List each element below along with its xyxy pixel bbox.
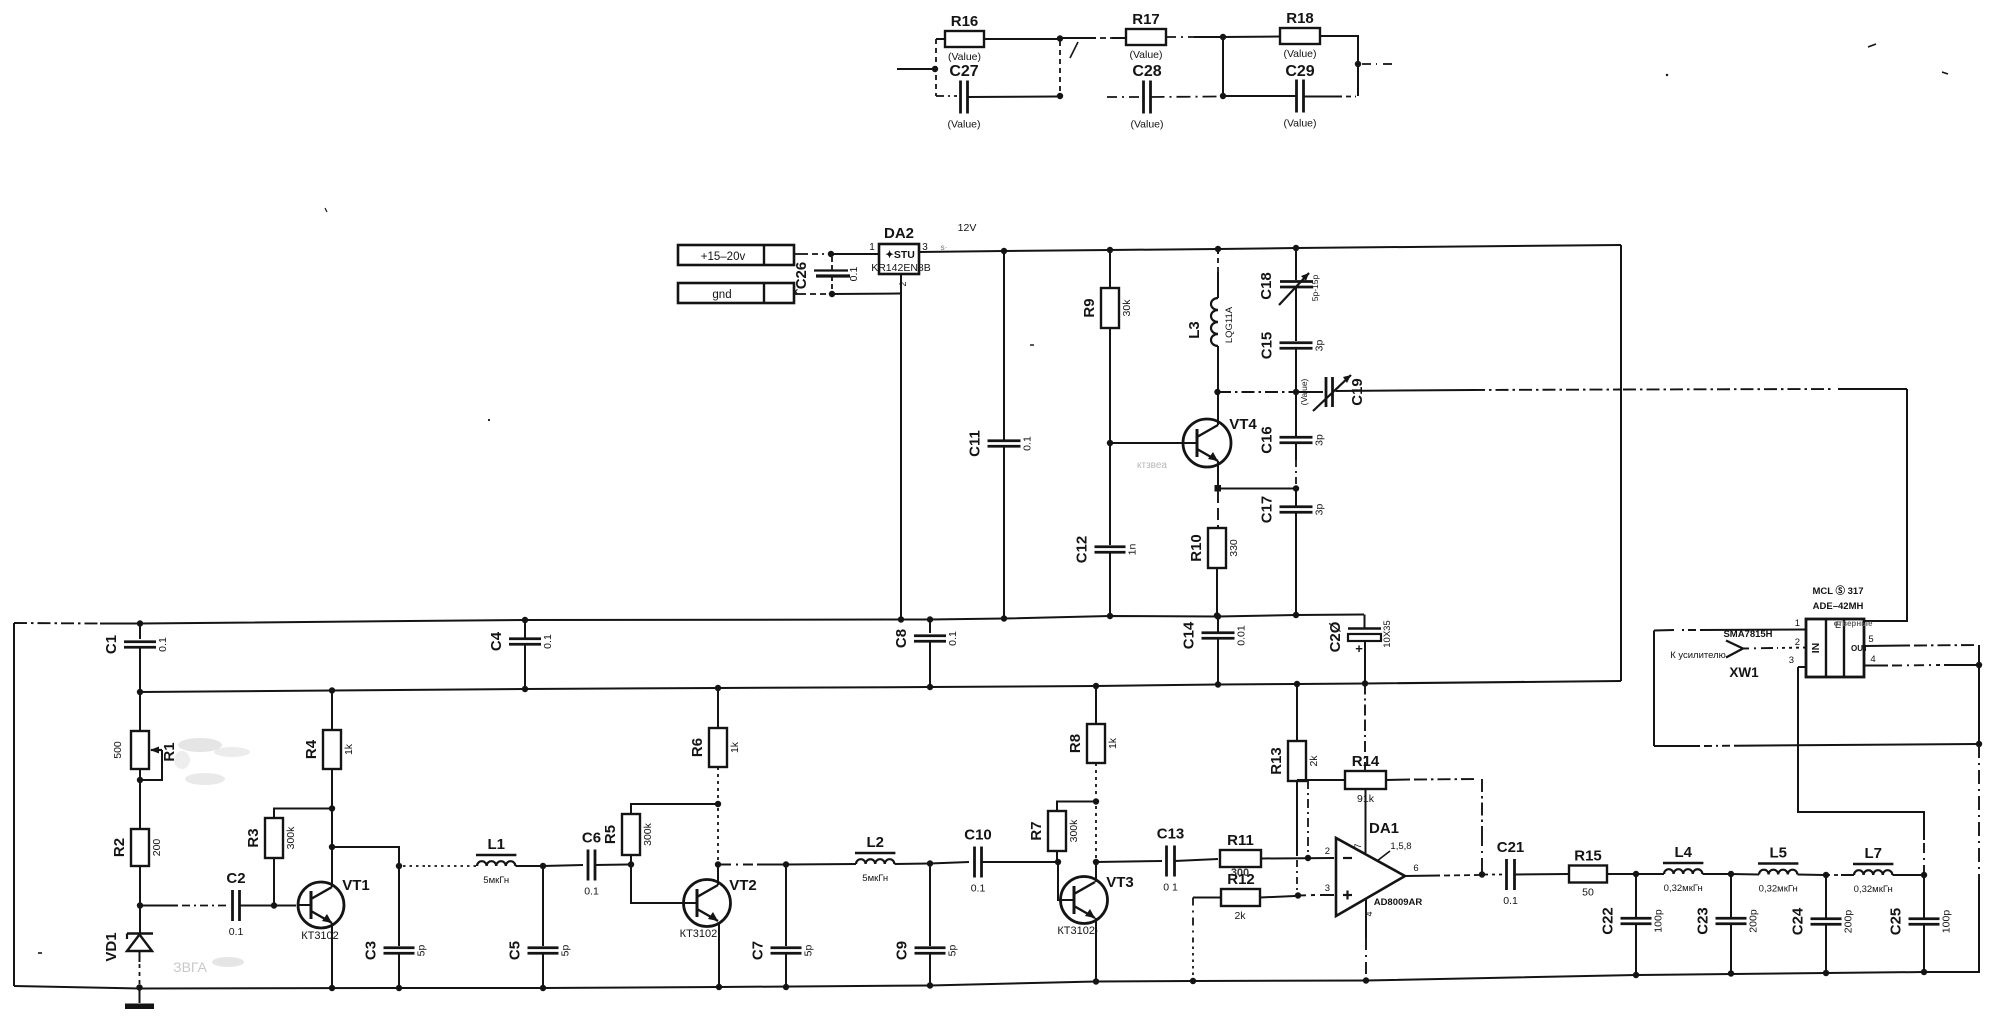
capacitor C12 [1109,443,1111,545]
junction dot DA1 pin4 ground [1363,977,1369,983]
svg-text:50: 50 [1582,887,1594,899]
capacitor C17 [1295,489,1297,507]
junction dot L7 output node [1921,872,1927,878]
svg-text:L3: L3 [1186,321,1203,339]
wire C7 node to L2 [786,863,856,866]
capacitor C24 [1825,875,1827,918]
transistor VT4 KT368 [1183,419,1231,467]
node C junction dot (top) [1220,34,1226,40]
svg-text:R5: R5 [602,825,619,844]
junction dot 12V rail / C18 [1293,245,1299,251]
wire R13 bottom to pin3 node [1296,781,1298,856]
svg-text:1: 1 [1795,618,1800,629]
svg-text:DA1: DA1 [1369,820,1399,837]
junction dot R3 top / R4 line [329,805,335,811]
wire L2 to C9 node [895,863,931,866]
svg-text:DA2: DA2 [884,225,914,242]
svg-text:0.1: 0.1 [584,886,599,898]
junction dot C19 node [1293,389,1299,395]
wire +15-20v to C26 node [794,253,808,255]
wire output node to C21 [1485,874,1502,876]
resistor R16 [945,31,984,47]
svg-text:100p: 100p [1941,910,1953,934]
capacitor C18 trimmer [1295,248,1297,280]
junction dot 12V rail / R9 [1107,247,1113,253]
capacitor C25 [1923,875,1925,918]
svg-text:R18: R18 [1286,10,1314,27]
svg-text:(Value): (Value) [1299,378,1309,405]
svg-text:0.1: 0.1 [947,631,959,646]
svg-text:5мкГн: 5мкГн [483,875,509,886]
svg-text:200p: 200p [1748,909,1760,933]
svg-text:R10: R10 [1188,534,1205,562]
svg-text:L1: L1 [487,836,505,853]
svg-text:C12: C12 [1074,536,1091,564]
svg-text:R15: R15 [1574,848,1602,865]
svg-text:0.1: 0.1 [848,267,860,282]
svg-text:R17: R17 [1132,11,1160,28]
svg-text:C3: C3 [363,941,380,960]
speck left mid [38,952,42,954]
wire ground rail bottom [14,972,1980,989]
junction dot R12 ground [1190,978,1196,984]
capacitor C15 [1280,341,1313,344]
svg-text:1n: 1n [1127,544,1139,556]
wire R11 to DA1 pin 2 [1261,857,1334,860]
junction dot C3 column / signal out [396,863,402,869]
inductor L3 LQG11A [1217,249,1219,254]
wire VT4 base [1110,442,1186,444]
svg-text:C23: C23 [1695,907,1712,935]
svg-text:R11: R11 [1227,832,1254,849]
capacitor C19 trimmer (Value) [1296,391,1323,393]
wire R12 right to DA1 pin 3 [1260,896,1295,898]
junction dot R9 / VT4 base [1107,440,1113,446]
inductor L2 5uH [856,859,894,864]
wire VT1 emitter [331,923,333,988]
svg-text:C2Ø: C2Ø [1327,621,1344,652]
svg-text:(Value): (Value) [1283,48,1316,60]
node B junction dot (bottom) [1057,93,1063,99]
wire R16 right to node B [984,38,1058,40]
junction dot R7 top / R8 line [1093,798,1099,804]
svg-text:2: 2 [1795,637,1800,648]
wire VT2 emitter [718,922,720,987]
resistor R9 [1109,250,1111,288]
svg-text:VT1: VT1 [342,877,370,894]
resistor R17 [1126,29,1166,45]
svg-text:C16: C16 [1259,426,1276,454]
svg-text:(Value): (Value) [1130,119,1163,131]
wire node C to R18 [1223,36,1280,39]
wire input lead to top filter [897,68,932,70]
svg-text:0.1: 0.1 [971,883,986,895]
wire collector node to C19 node [1218,391,1294,393]
node A junction dot [932,66,938,72]
junction dot R2 / C2 / VD1 [137,902,143,908]
wire C29 left to node C [1223,95,1297,97]
svg-text:4: 4 [1364,911,1374,916]
wire left border vertical [13,623,15,986]
svg-text:(Value): (Value) [947,119,980,131]
svg-text:КТ3102.: КТ3102. [680,928,721,940]
capacitor C8 [929,620,931,634]
capacitor C21 [1505,859,1508,890]
svg-text:C1: C1 [103,635,120,654]
resistor R10 [1217,491,1219,528]
junction dot R3 / base wire [271,902,277,908]
wire ground rail top [14,622,100,625]
svg-text:0.1: 0.1 [1022,436,1034,451]
junction dot 12V rail / C20 [1362,680,1368,686]
junction dot ground rail / C8 [927,616,933,622]
node D output dot [1355,61,1361,67]
svg-text:КТ3102·: КТ3102· [1057,925,1098,937]
wire right vertical rail [1978,645,1980,744]
capacitor C27 [959,81,962,114]
junction dot C10 / R7 / VT3 base column [1055,859,1061,865]
svg-text:1,5,8: 1,5,8 [1390,841,1411,852]
junction dot 12V rail / C11 [1001,248,1007,254]
wire VT2 base [631,865,684,904]
svg-text:R16: R16 [951,13,979,30]
node B junction dot (top) [1057,35,1063,41]
svg-text:C17: C17 [1259,496,1276,524]
svg-text:0,32мкГн: 0,32мкГн [1664,883,1703,894]
inductor L5 0.32uH [1731,873,1759,876]
junction dot 12V rail / L3 [1215,246,1221,252]
svg-text:AD8009AR: AD8009AR [1374,897,1423,908]
svg-text:C18: C18 [1258,272,1275,300]
resistor R13 [1296,684,1298,741]
svg-text:отверные: отверные [1834,619,1873,628]
wire C19 right to mixer secondary [1336,390,1473,391]
junction dot VT3 collector node [1093,859,1099,865]
inductor L4 0.32uH [1636,873,1664,875]
transistor VT3 KT3102 [1061,877,1108,924]
svg-text:3p: 3p [1314,504,1326,516]
junction dot 12V rail / C4 [522,686,528,692]
resistor R1 trimmer 500 [139,692,141,731]
wire collector node to C7/L2 [721,864,753,866]
junction dot C24 node [1823,872,1829,878]
svg-text:5p: 5p [416,945,428,957]
junction dot VT1 collector node [329,844,335,850]
svg-text:ЗВГА: ЗВГА [173,959,207,975]
junction dot R5 top / R6 line [715,801,721,807]
svg-text:C9: C9 [894,941,911,960]
svg-text:5p: 5p [803,945,815,957]
svg-text:0,32мкГн: 0,32мкГн [1759,884,1798,895]
svg-text:R9: R9 [1081,298,1098,317]
op-amp DA1 AD8009AR [1336,838,1405,916]
junction dot 12V rail / C8 [927,684,933,690]
wire VT2 collector [717,865,719,886]
wire feedback drop to pin2 [1307,780,1309,856]
junction dot VT4 collector node [1214,389,1220,395]
svg-text:3p: 3p [1314,340,1326,352]
junction dot output node [1479,871,1485,877]
svg-text:500: 500 [112,741,124,759]
svg-text:SMA7815H: SMA7815H [1723,629,1772,640]
zener diode VD1 [139,906,141,934]
svg-text:5p: 5p [560,945,572,957]
svg-text:VT3: VT3 [1106,874,1134,891]
svg-text:L2: L2 [866,834,884,851]
junction dot 12V rail / R8 [1093,683,1099,689]
wire C28 leads [1107,96,1144,98]
svg-text:C24: C24 [1790,907,1807,935]
svg-text:2: 2 [898,281,908,286]
wire filter output up to mixer pin 3 [1923,840,1925,875]
wire ground rail corner into C20 [1364,615,1366,629]
svg-text:C8: C8 [893,629,910,648]
wire DA1 pin 7 supply column [1364,684,1366,721]
wire node C vertical [1222,37,1224,96]
resistor R14 [1345,771,1386,789]
svg-text:C19: C19 [1349,378,1366,406]
svg-text:XW1: XW1 [1729,665,1759,680]
wire VT3 base [1058,862,1061,900]
svg-text:L7: L7 [1864,845,1882,862]
svg-text:✦STU: ✦STU [885,249,915,261]
resistor R8 [1095,686,1097,724]
wire R14 right to output node [1386,779,1410,782]
svg-text:C21: C21 [1497,839,1525,856]
svg-text:L5: L5 [1769,845,1787,862]
wire L1 to C5 node [516,865,544,867]
wire signal to L1 [403,865,425,867]
capacitor C22 [1635,874,1637,917]
svg-text:1k: 1k [343,743,355,755]
capacitor C7 [785,865,787,947]
svg-text:4: 4 [1870,654,1875,665]
capacitor C1 [139,624,141,640]
svg-text:1: 1 [869,242,875,253]
svg-text:(Value): (Value) [1129,49,1162,61]
wire R1 to R2 [139,769,141,829]
svg-text:ADE–42MH: ADE–42MH [1813,601,1864,612]
junction dot 12V rail / R6 [715,685,721,691]
capacitor C11 [1003,251,1005,440]
wire VT3 collector [1095,862,1097,882]
svg-text:300k: 300k [642,822,654,846]
svg-text:C4: C4 [488,631,505,651]
wire collector node to C3 column [332,847,399,866]
wire VT4 collector to node [1217,392,1219,425]
svg-text:ктзвеа: ктзвеа [1137,460,1167,471]
svg-text:IN: IN [1810,643,1822,654]
junction dot 12V rail / R4 [329,687,335,693]
capacitor C14 [1217,617,1219,633]
junction dot C9 node [927,860,933,866]
svg-text:R2: R2 [111,838,128,857]
capacitor C26 [814,269,848,271]
capacitor C28 [1142,81,1145,114]
svg-text:MCL Ⓢ 317: MCL Ⓢ 317 [1812,585,1863,597]
capacitor C10 [930,862,969,864]
wire node B vertical [1059,41,1061,94]
transistor VT2 KT3102 [684,880,731,927]
wire R8 bottom to collector node [1095,763,1097,797]
svg-text:C22: C22 [1600,907,1617,935]
resistor R7 [1056,851,1058,862]
wire +12V distribution rail [140,681,1621,692]
svg-text:C28: C28 [1132,63,1161,80]
svg-text:VD1: VD1 [103,932,120,961]
wire R6 bottom to collector node [717,767,719,800]
svg-text:R4: R4 [303,739,320,759]
capacitor C9 [929,864,931,947]
svg-text:C15: C15 [1259,332,1276,360]
svg-text:0.1: 0.1 [157,637,169,652]
svg-text:12V: 12V [958,222,977,234]
wire R17 right to node C [1166,36,1194,38]
wire VT4 emitter to node [1217,461,1219,488]
resistor R3 [273,858,275,906]
svg-text:0.01: 0.01 [1236,625,1248,646]
capacitor C6 [543,865,583,866]
svg-text:LQG11A: LQG11A [1224,306,1235,343]
wire 12V rail right corner down [1620,245,1622,681]
svg-text:0.1: 0.1 [542,634,554,649]
svg-text:300k: 300k [285,826,297,850]
svg-text:R13: R13 [1268,747,1285,775]
junction dot R13 / pin3 wire [1295,892,1301,898]
svg-text:R12: R12 [1227,871,1255,888]
wire R18 right / output node D [1320,36,1358,96]
connector gnd [678,283,794,303]
wire C27 right to node B [968,96,1058,99]
stray pencil mark [1070,42,1078,58]
wire emitter node row [1218,488,1294,490]
capacitor C13 [1165,846,1168,877]
wire R13/R14 interconnect [1297,779,1345,781]
wire VT1 collector [331,847,333,887]
svg-text:300k: 300k [1068,819,1080,843]
wire R15 to C22 node [1607,873,1634,875]
svg-text:5p: 5p [947,945,959,957]
svg-text:330: 330 [1228,539,1240,557]
junction dot 12V rail / R13 [1294,681,1300,687]
svg-text:КТ3102: КТ3102 [301,930,339,942]
inductor L1 5uH [477,861,515,866]
node C junction dot (bottom) [1220,93,1226,99]
svg-text:1k: 1k [729,741,741,753]
svg-text:К усилителю: К усилителю [1670,650,1726,661]
svg-text:100p: 100p [1653,909,1665,933]
svg-text:3: 3 [1789,655,1794,666]
svg-text:5: 5 [1868,634,1873,645]
svg-text:0.1: 0.1 [229,926,244,938]
svg-text:L4: L4 [1674,844,1692,861]
node junction dot at C26 top [828,251,834,257]
junction dot C5 node [540,863,546,869]
connector +15-20v [678,245,794,265]
svg-text:2k: 2k [1308,755,1320,767]
svg-text:R8: R8 [1067,734,1084,753]
wire collector node to C13 [1096,861,1162,862]
svg-text:(Value): (Value) [1283,118,1316,130]
capacitor C20 electrolytic 10x35 [1348,627,1381,629]
svg-text:10X35: 10X35 [1382,620,1393,647]
resistor R6 [717,688,719,728]
svg-text:C29: C29 [1285,63,1314,80]
speck top right [1868,44,1876,47]
svg-text:C14: C14 [1181,621,1198,649]
svg-text:0 1: 0 1 [1163,882,1178,894]
svg-text:0.1: 0.1 [1503,895,1518,907]
inductor L7 0.32uH [1826,874,1838,876]
svg-text:ѕ·: ѕ· [941,243,948,252]
svg-text:30k: 30k [1121,299,1133,317]
resistor R4 [331,691,333,731]
svg-text:5мкГн: 5мкГн [862,873,888,884]
stain blob right of R1 [174,738,250,785]
wire VT3 emitter [1095,918,1097,982]
junction dot C23 node [1728,871,1734,877]
svg-text:+15–20v: +15–20v [701,251,746,263]
wire gnd connector to DA2 pin 2 [794,293,806,295]
wire node B to R17 [1063,37,1096,39]
ground symbol [139,988,141,1004]
wire node A vertical (R16 left / C27 left) [935,39,937,96]
wire C26 node to DA2 pin 1 [831,253,879,255]
junction dot C6 / R5 / VT2 base column [628,861,634,867]
svg-text:C7: C7 [750,941,767,960]
junction dot return loop / right rail [1976,741,1982,747]
resistor R5 [630,855,632,865]
junction dot ground rail / DA2 pin2 [898,616,904,622]
svg-text:gnd: gnd [712,289,731,301]
wire output stub right [1362,63,1377,65]
svg-text:VT2: VT2 [729,877,757,894]
svg-text:2k: 2k [1234,910,1246,922]
svg-text:ˆC26: ˆC26 [793,262,810,295]
junction dot 12V rail / C14 [1215,681,1221,687]
junction dot C7 node [783,861,789,867]
svg-text:1k: 1k [1107,737,1119,749]
svg-text:VT4: VT4 [1229,416,1257,433]
capacitor C16 [1295,392,1297,436]
svg-text:(Value): (Value) [948,51,981,63]
capacitor C29 [1295,80,1298,113]
junction dot ground rail / C1 [137,620,143,626]
svg-text:KR142EN8B: KR142EN8B [871,262,931,274]
svg-text:C10: C10 [964,827,992,844]
capacitor C5 [542,866,544,946]
junction dot feedback / pin2 wire [1305,855,1311,861]
svg-text:R7: R7 [1028,821,1045,840]
svg-text:C25: C25 [1888,908,1905,936]
svg-text:C13: C13 [1157,826,1185,843]
transistor VT1 KT3102 [298,882,344,928]
svg-text:+: + [1355,641,1363,656]
capacitor C23 [1730,874,1732,917]
svg-text:6: 6 [1413,863,1418,874]
svg-text:R6: R6 [689,738,706,757]
resistor R15 [1569,866,1607,883]
svg-text:C11: C11 [967,430,984,457]
wire pin1 return loop [1653,631,1655,681]
junction dot ground rail / C14 [1215,613,1221,619]
capacitor C2 [143,905,178,907]
svg-text:200: 200 [151,839,163,857]
junction dot VT2 collector node [715,861,721,867]
resistor R18 [1280,28,1320,44]
wire R12 left to ground [1193,897,1221,899]
svg-text:0,32мкГн: 0,32мкГн [1854,884,1893,895]
